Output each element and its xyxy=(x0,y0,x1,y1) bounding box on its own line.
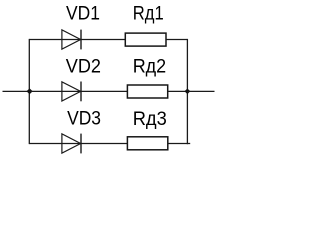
wire: right output lead xyxy=(187,90,214,92)
wire: branch 2 middle segment xyxy=(81,90,127,92)
wire: branch 1 right segment xyxy=(166,39,187,41)
resistor Rд1 xyxy=(125,33,166,46)
wire: branch 1 anode segment xyxy=(29,39,81,41)
wire: branch 2 right segment xyxy=(168,90,188,92)
svg-text:VD1: VD1 xyxy=(66,4,100,25)
wire: branch 3 anode segment xyxy=(29,143,81,145)
resistor Rд3 xyxy=(127,137,167,150)
diode VD3 xyxy=(62,134,81,154)
wire: branch 3 right segment xyxy=(168,143,190,145)
node: right junction dot xyxy=(185,89,191,95)
svg-text:VD3: VD3 xyxy=(67,109,101,130)
wire: left vertical bus xyxy=(28,39,30,144)
wire: branch 3 middle segment xyxy=(81,143,127,145)
wire: left input lead xyxy=(3,90,30,92)
svg-text:Rд3: Rд3 xyxy=(133,109,167,130)
diode VD2 xyxy=(62,82,81,102)
wire: branch 2 anode segment xyxy=(29,90,81,92)
svg-text:Rд2: Rд2 xyxy=(133,57,167,78)
node: left junction dot xyxy=(27,88,33,94)
svg-text:Rд1: Rд1 xyxy=(133,4,164,25)
wire: right vertical bus xyxy=(186,39,188,144)
wire: branch 1 middle segment xyxy=(81,39,125,41)
svg-text:VD2: VD2 xyxy=(66,57,101,78)
diode VD1 xyxy=(62,30,81,50)
resistor Rд2 xyxy=(127,85,167,98)
